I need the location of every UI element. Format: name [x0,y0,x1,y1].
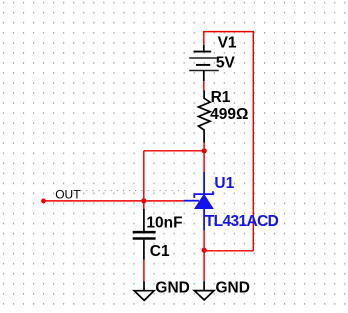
svg-text:5V: 5V [216,55,236,72]
wire: right vertical rail [252,31,254,251]
wire: TL431 anode down to node C [203,231,205,251]
value 5V [216,55,236,72]
label U1 [214,175,234,192]
label V1 [218,35,237,52]
wire: node C right to right rail bottom [204,250,253,252]
dotted leader line of net OUT [80,190,186,192]
value 499&#937; [210,106,248,123]
svg-text:C1: C1 [150,243,170,260]
label R1 [211,89,231,106]
wire: node B to TL431 ref pin [144,200,184,202]
node B junction dot [141,198,146,203]
svg-text:R1: R1 [211,89,231,106]
svg-text:V1: V1 [218,35,237,52]
terminal dot OUT [41,199,46,204]
node C junction dot [202,248,207,253]
wire: left rail vertical down to node B [143,151,145,201]
op-amp U1 TL431ACD symbol [184,172,213,231]
svg-text:GND: GND [155,280,189,297]
ground (right) [194,281,214,300]
label C1 [150,243,170,260]
svg-text:10nF: 10nF [146,214,182,231]
wire: capacitor to left ground [143,260,145,281]
resistor R1 [199,90,211,142]
node A junction dot [202,148,207,153]
battery V1 [189,45,219,82]
ground (left) [134,281,154,300]
wire: resistor to node A [203,143,205,151]
label GND left [155,280,189,297]
svg-text:U1: U1 [214,175,234,192]
svg-text:499Ω: 499Ω [210,106,248,123]
wire: node C down to right ground [203,250,205,281]
wire: top horizontal from battery to right rail [204,31,254,33]
wire: node B down to capacitor [143,201,145,209]
wire: OUT stub from terminal to node B [44,200,144,202]
net label OUT [55,187,81,201]
wire: battery top lead red segment [203,31,205,45]
value TL431ACD [205,213,279,230]
wire: node A left to left rail corner [144,150,204,152]
value 10nF [146,214,182,231]
svg-text:TL431ACD: TL431ACD [205,213,279,230]
capacitor C1 [133,209,156,260]
svg-text:GND: GND [216,279,250,296]
label GND right [216,279,250,296]
svg-text:OUT: OUT [55,187,81,201]
wire: node A down to TL431 cathode [203,151,205,172]
wire: battery to resistor [203,81,205,90]
